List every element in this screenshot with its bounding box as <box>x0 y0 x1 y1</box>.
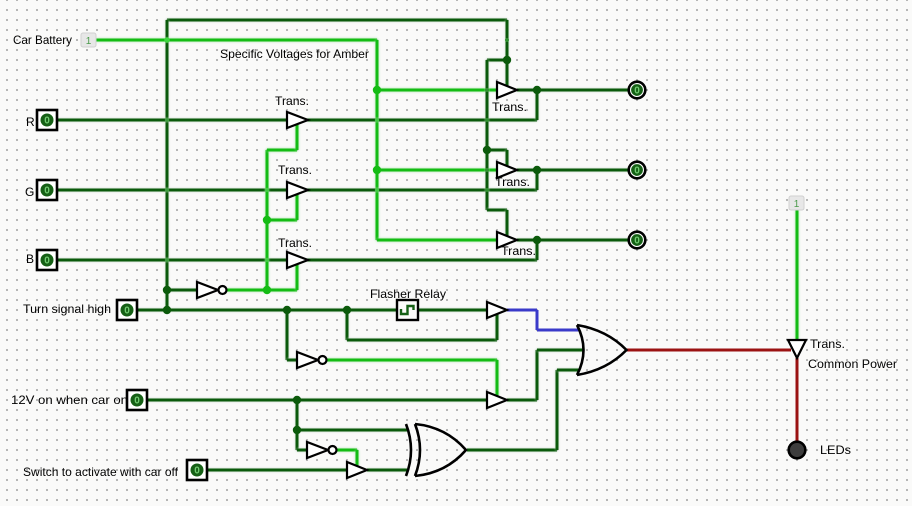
junction battery tap 1 <box>373 86 381 94</box>
junction inverted bus B <box>263 286 271 294</box>
junction gate bus Q5 <box>483 146 491 154</box>
wire Q7 control drop <box>346 310 349 340</box>
transistor Q8 12V buffer <box>487 392 507 408</box>
pin switch <box>187 460 207 480</box>
pin 12V <box>127 390 147 410</box>
svg-text:Car Battery: Car Battery <box>13 33 72 47</box>
node crossing R left <box>165 118 169 122</box>
wire gate bus jog top <box>487 59 507 62</box>
wire Q7 control riser <box>496 313 499 340</box>
svg-text:1: 1 <box>86 36 92 47</box>
transistor Q10 Trans. Common Power <box>788 340 806 358</box>
wire to probe 3 <box>517 239 628 242</box>
wire Q9 control drop <box>356 450 359 467</box>
wire Q1 control riser <box>296 124 299 150</box>
wire R row riser <box>536 90 539 120</box>
node crossing gate bus G <box>485 188 489 192</box>
wire U3 output <box>337 449 357 452</box>
svg-text:LEDs: LEDs <box>820 443 851 457</box>
svg-text:Trans.: Trans. <box>278 236 312 250</box>
wire 12V tap drop <box>296 400 299 450</box>
node crossing G battery bus <box>375 188 379 192</box>
wire U2 input <box>287 359 297 362</box>
svg-text:0: 0 <box>124 306 130 317</box>
wire U1 input <box>167 289 197 292</box>
wire constant drop <box>796 210 799 340</box>
wire to probe 2 <box>517 169 628 172</box>
svg-text:0: 0 <box>634 166 640 177</box>
wire G row input <box>57 189 287 192</box>
svg-text:Flasher Relay: Flasher Relay <box>370 287 446 301</box>
wire B row Q3 output <box>307 259 537 262</box>
svg-text:0: 0 <box>194 466 200 477</box>
svg-text:0: 0 <box>44 116 50 127</box>
svg-text:Trans.: Trans. <box>495 175 530 189</box>
wire battery to Q4 input <box>377 89 497 92</box>
wire XOR output riser <box>556 370 559 450</box>
svg-text:B: B <box>26 252 34 266</box>
wire B row riser <box>536 240 539 260</box>
wire OR middle input <box>537 349 584 352</box>
wire XOR lower input <box>367 469 407 472</box>
pin G <box>37 180 57 200</box>
inverter U1 <box>197 282 227 298</box>
wire battery to Q5 input <box>377 169 497 172</box>
svg-text:Specific Voltages for Amber: Specific Voltages for Amber <box>220 47 369 61</box>
junction battery tap 2 <box>373 166 381 174</box>
wire G row riser <box>536 170 539 190</box>
inverter U2 <box>297 352 327 368</box>
svg-text:Trans.: Trans. <box>492 100 527 114</box>
wire R row Q1 output <box>307 119 537 122</box>
constant 1 battery <box>81 33 96 47</box>
wire blue drop <box>536 310 539 330</box>
inverter U3 <box>307 442 337 458</box>
svg-text:Trans.: Trans. <box>278 163 312 177</box>
wire turn signal row <box>137 309 397 312</box>
svg-text:0: 0 <box>44 256 50 267</box>
clock K1 Flasher Relay <box>397 300 418 320</box>
junction probe 1 <box>533 86 541 94</box>
wire Q2 control riser <box>296 194 299 220</box>
wire left vertical bus <box>166 20 169 310</box>
svg-text:Turn signal high: Turn signal high <box>23 302 111 316</box>
wire gate tap Q6 horizontal <box>487 209 507 212</box>
junction turn bus end <box>163 306 171 314</box>
wire battery vertical bus <box>376 40 379 240</box>
transistor Q4 Trans. top right <box>497 82 517 98</box>
pin R <box>37 110 57 130</box>
wire OR output red <box>627 349 791 352</box>
wire gate tap Q5 horizontal <box>487 149 507 152</box>
wire battery to Q6 input <box>377 239 497 242</box>
LED D1 <box>789 442 806 459</box>
transistor Q7 flasher buffer <box>487 302 507 318</box>
probe output 2 <box>629 162 646 179</box>
node crossing drop battery <box>505 38 509 42</box>
transistor Q5 Trans. mid right <box>497 162 517 178</box>
svg-text:Switch to activate with car of: Switch to activate with car off <box>23 465 179 479</box>
wire OR lower input <box>557 369 580 372</box>
node crossing R battery bus <box>375 118 379 122</box>
transistor Q1 Trans. R row <box>287 112 308 128</box>
pin B <box>37 250 57 270</box>
node crossing gate bus battery2 <box>485 168 489 172</box>
wire G row Q2 output <box>307 189 537 192</box>
probe output 1 <box>629 82 646 99</box>
wire Q8 output <box>507 399 537 402</box>
constant 1 common power <box>789 196 804 210</box>
node crossing gate bus R <box>485 118 489 122</box>
svg-text:Trans.: Trans. <box>501 244 536 258</box>
wire car battery horizontal <box>96 39 377 42</box>
wire U1 output <box>227 289 297 292</box>
wire gate tap Q5 drop <box>506 150 509 167</box>
probe output 3 <box>629 232 646 249</box>
node crossing G mid <box>265 188 269 192</box>
transistor Q3 Trans. B row <box>287 252 308 268</box>
wire R row input <box>57 119 287 122</box>
svg-text:0: 0 <box>134 396 140 407</box>
wire B row input <box>57 259 287 262</box>
transistor Q6 Trans. bottom right <box>497 232 517 248</box>
svg-text:1: 1 <box>794 199 800 210</box>
wire Q10 output red <box>796 358 799 443</box>
wire OR upper input <box>537 329 580 332</box>
xor-gate G2 <box>406 424 466 476</box>
wire XOR upper input <box>297 429 407 432</box>
wire 12V row <box>147 399 487 402</box>
wire Q7 control horizontal <box>347 339 497 342</box>
wire gate bus drop <box>506 20 509 87</box>
junction U2 tap <box>283 306 291 314</box>
node crossing battery bus <box>164 37 170 43</box>
wire U3 input <box>297 449 307 452</box>
pin turn signal <box>117 300 137 320</box>
svg-text:0: 0 <box>44 186 50 197</box>
junction gate bus top <box>503 56 511 64</box>
wire inverted bus vertical <box>266 150 269 290</box>
junction probe 2 <box>533 166 541 174</box>
wire switch row <box>207 469 347 472</box>
junction 12V tap <box>293 396 301 404</box>
node crossing B left <box>165 258 169 262</box>
wire to probe 1 <box>517 89 628 92</box>
wire gate tap Q6 drop <box>506 210 509 237</box>
wire clock to Q7 <box>418 309 487 312</box>
or-gate G1 <box>577 325 627 375</box>
wire Q8 output riser <box>536 350 539 400</box>
node crossing B mid <box>265 258 269 262</box>
junction XOR tap <box>293 426 301 434</box>
svg-text:R: R <box>26 115 35 129</box>
wire U2 output <box>327 359 497 362</box>
transistor Q9 switch buffer <box>347 462 367 478</box>
junction U1 tap <box>163 286 171 294</box>
svg-text:Common Power: Common Power <box>808 357 897 371</box>
junction inverted bus G <box>263 216 271 224</box>
wire Q3 control riser <box>296 264 299 290</box>
svg-text:Trans.: Trans. <box>275 94 309 108</box>
junction probe 3 <box>533 236 541 244</box>
junction flasher tap <box>343 306 351 314</box>
wire XOR output <box>467 449 557 452</box>
svg-text:G: G <box>25 185 34 199</box>
svg-text:0: 0 <box>634 236 640 247</box>
wire Q8 control drop <box>496 360 499 397</box>
svg-text:12V on when car on: 12V on when car on <box>11 393 128 407</box>
wire Q1 control horizontal <box>267 149 297 152</box>
transistor Q2 Trans. G row <box>287 182 308 198</box>
svg-text:0: 0 <box>634 86 640 97</box>
wire Q7 blue output <box>507 309 537 312</box>
wire gate bus vertical <box>486 60 489 210</box>
wire top bus <box>167 19 507 22</box>
wire U2 feed drop <box>286 310 289 360</box>
node crossing gate bus battery <box>485 88 489 92</box>
wire Q2 control horizontal <box>267 219 297 222</box>
node crossing G left <box>165 188 169 192</box>
svg-text:Trans.: Trans. <box>810 337 845 351</box>
